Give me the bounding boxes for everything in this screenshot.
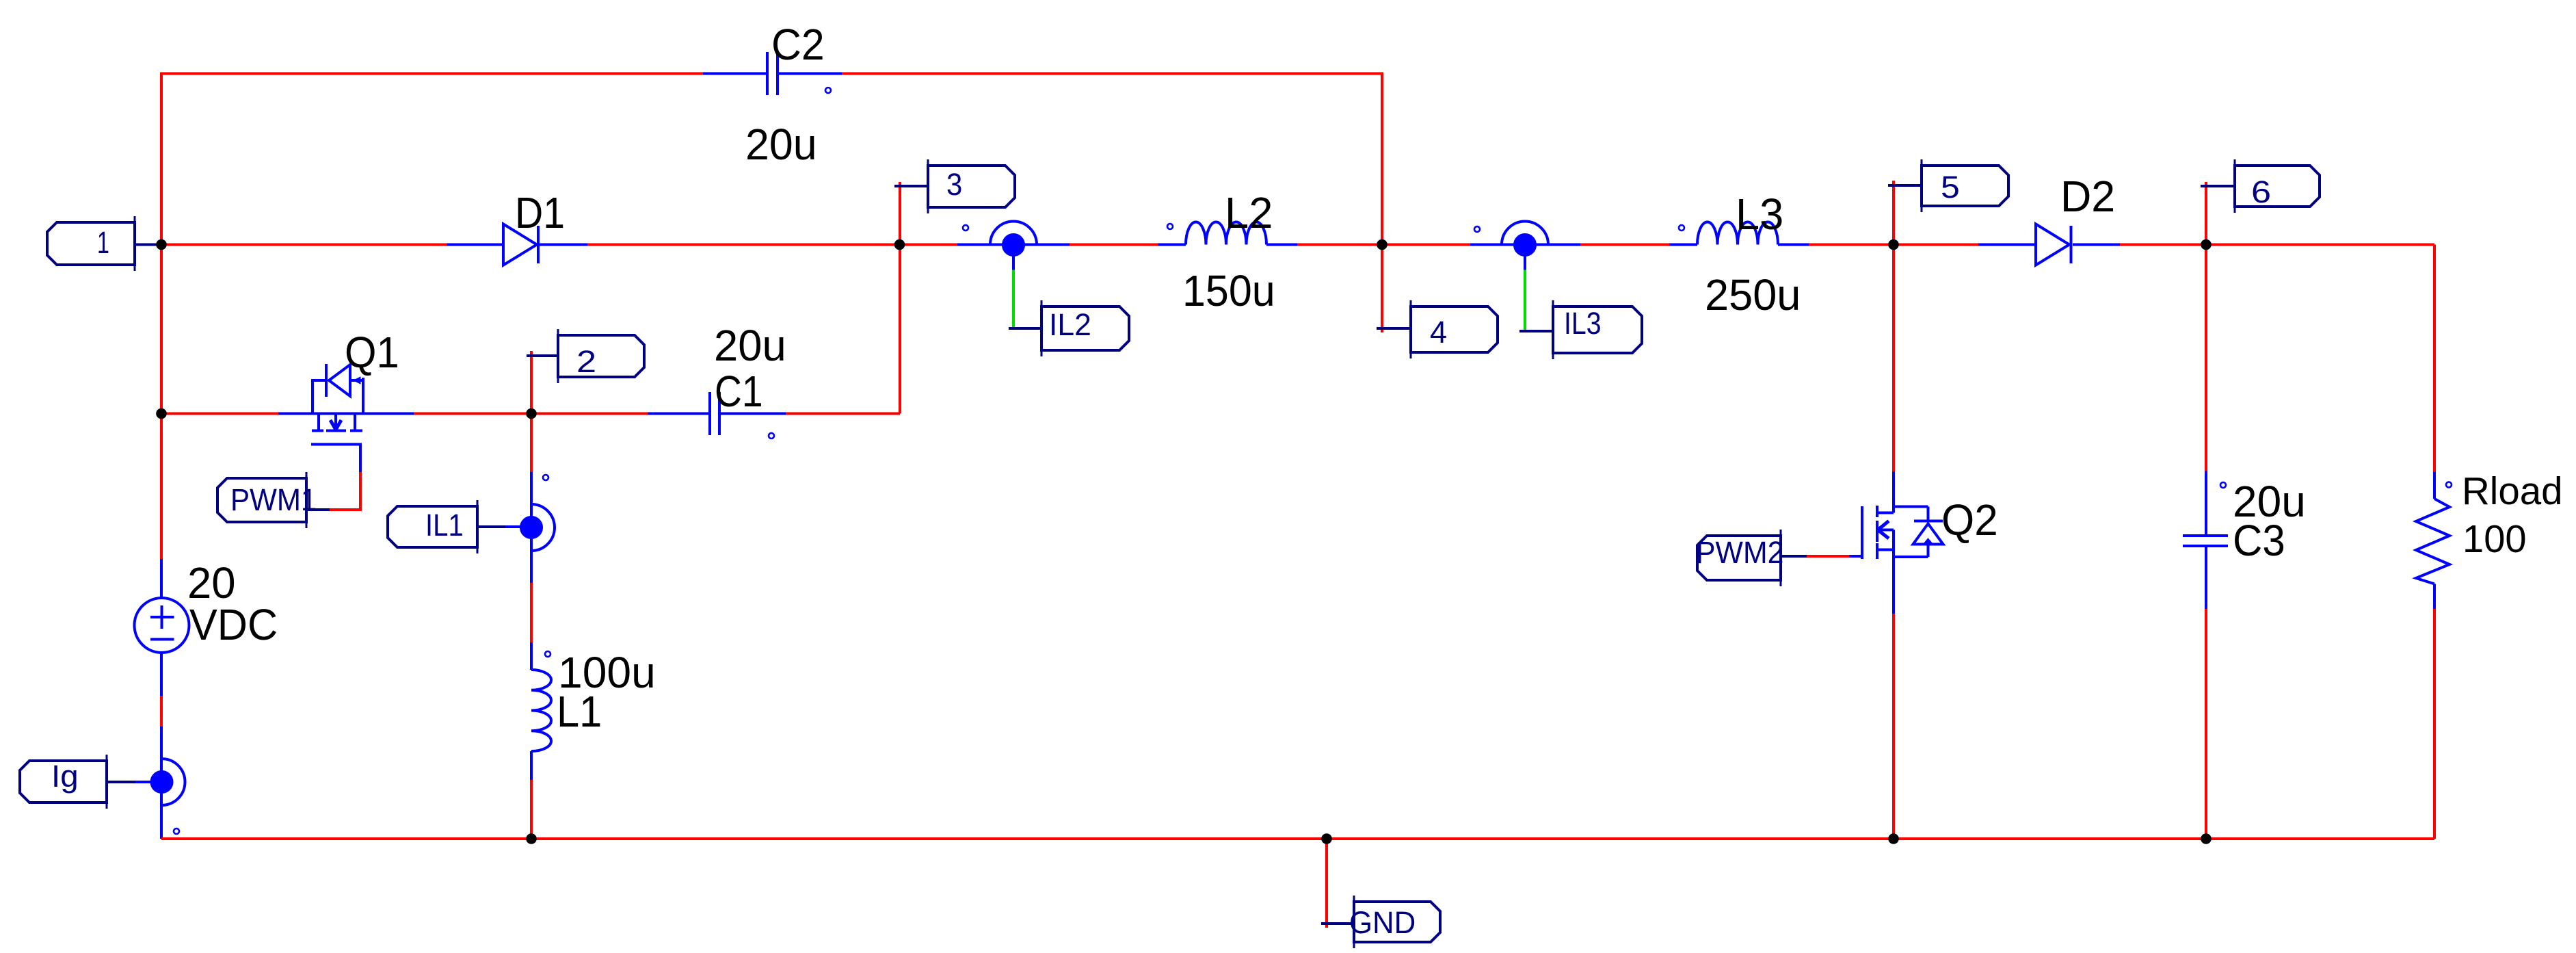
svg-text:D1: D1: [515, 188, 565, 237]
svg-text:3: 3: [946, 167, 962, 202]
svg-text:PWM1: PWM1: [230, 482, 317, 517]
svg-text:IL3: IL3: [1564, 306, 1602, 341]
svg-text:IL2: IL2: [1049, 307, 1091, 342]
svg-text:20u: 20u: [714, 321, 786, 370]
svg-text:L1: L1: [557, 687, 602, 736]
svg-text:4: 4: [1430, 315, 1447, 350]
svg-text:IL1: IL1: [425, 508, 464, 543]
svg-text:L2: L2: [1225, 188, 1273, 237]
svg-text:VDC: VDC: [189, 600, 278, 649]
svg-text:100: 100: [2462, 517, 2527, 561]
svg-text:20u: 20u: [745, 120, 817, 169]
svg-text:C2: C2: [771, 20, 825, 69]
svg-text:PWM2: PWM2: [1696, 535, 1783, 570]
svg-text:Q2: Q2: [1941, 495, 1998, 545]
svg-text:5: 5: [1941, 170, 1960, 205]
svg-text:6: 6: [2251, 174, 2271, 209]
svg-text:Ig: Ig: [51, 759, 79, 794]
svg-text:Rload: Rload: [2462, 469, 2563, 513]
svg-text:L3: L3: [1736, 190, 1783, 239]
svg-text:1: 1: [97, 225, 109, 260]
svg-text:Q1: Q1: [345, 328, 399, 377]
svg-text:150u: 150u: [1182, 266, 1275, 315]
svg-text:2: 2: [576, 344, 596, 379]
svg-text:GND: GND: [1349, 905, 1416, 940]
svg-text:D2: D2: [2060, 172, 2115, 221]
svg-text:C1: C1: [715, 367, 763, 416]
svg-text:250u: 250u: [1705, 270, 1801, 319]
svg-text:C3: C3: [2233, 516, 2285, 565]
